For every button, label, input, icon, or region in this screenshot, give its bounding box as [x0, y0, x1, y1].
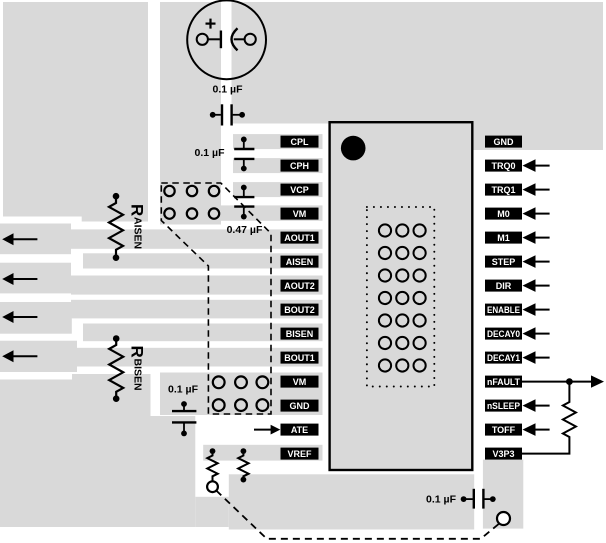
svg-text:DECAY1: DECAY1 [487, 353, 520, 363]
wire: nFAULT to pullup and output arrow [522, 381, 592, 383]
wire: BOUT2 trace [71, 300, 323, 319]
node: nFAULT junction [566, 378, 573, 385]
arrow: input to DECAY1 [523, 351, 550, 364]
arrow: motor output 3 (left) [2, 311, 37, 323]
copper pour: left plane lower step [82, 217, 148, 222]
svg-text:R: R [128, 346, 147, 358]
capacitor C3 0.1 uF (CPL-CPH flying cap) [195, 137, 255, 172]
svg-text:CPH: CPH [290, 161, 309, 171]
svg-text:DIR: DIR [496, 281, 512, 291]
node: pin label GND (left column row 12) [281, 400, 319, 412]
svg-text:V3P3: V3P3 [492, 449, 514, 459]
node: pin label DECAY1 (right column row 10) [485, 352, 522, 364]
svg-text:VM: VM [293, 377, 307, 387]
arrow: motor output 1 (left) [2, 233, 37, 245]
svg-text:AOUT1: AOUT1 [284, 233, 315, 243]
svg-text:AISEN: AISEN [131, 217, 143, 249]
svg-text:DECAY0: DECAY0 [487, 329, 520, 339]
svg-text:VCP: VCP [290, 185, 309, 195]
arrow: input to TOFF [523, 423, 550, 436]
node: via to bottom layer (VREF) [207, 481, 218, 492]
arrow: input to DECAY0 [523, 327, 550, 340]
node: pin label BISEN (left column row 9) [281, 328, 319, 340]
node: thermal pad via array (3x7) [379, 224, 426, 371]
svg-text:0.1 µF: 0.1 µF [426, 494, 457, 506]
node: pin label AISEN (left column row 6) [281, 256, 319, 268]
wire: VM pin trace [160, 205, 323, 220]
svg-text:0.1 µF: 0.1 µF [195, 147, 226, 159]
svg-text:CPL: CPL [291, 137, 310, 147]
node: pin label nSLEEP (right column row 12) [485, 400, 522, 412]
node: pin 1 marker dot [341, 136, 366, 161]
node: pin label TRQ1 (right column row 3) [485, 184, 522, 196]
wire: AISEN trace [83, 253, 323, 268]
arrow: input to M1 [523, 231, 550, 244]
resistor RBISEN [109, 335, 147, 402]
IC U1 stepper motor driver body [330, 122, 473, 470]
svg-text:M1: M1 [497, 233, 510, 243]
node: pin label BOUT1 (left column row 10) [281, 352, 319, 364]
svg-text:VM: VM [293, 209, 307, 219]
node: pin label M1 (right column row 5) [485, 232, 522, 244]
wire: AOUT1 trace left segment [0, 224, 71, 255]
copper pour: left plane [3, 2, 148, 217]
svg-text:VREF: VREF [287, 449, 312, 459]
node: pin label nFAULT (right column row 11) [485, 376, 522, 388]
svg-text:ATE: ATE [291, 425, 308, 435]
copper pour: top plane right extension (under GND box) [329, 124, 603, 151]
node: pin label ATE (left column row 13) [281, 424, 319, 436]
wire: VM/GND island with via array [160, 373, 323, 416]
svg-text:GND: GND [494, 137, 515, 147]
node: pin label VCP (left column row 3) [281, 184, 319, 196]
copper pour: below via pocket [195, 497, 229, 527]
node: pin label ENABLE (right column row 8) [485, 304, 522, 316]
node: pin label TOFF (right column row 13) [485, 424, 522, 436]
svg-text:BOUT1: BOUT1 [284, 353, 315, 363]
node: VM via array (3x2 top) [164, 186, 219, 219]
node: via to bottom layer (V3P3 area) [497, 512, 510, 525]
svg-text:TOFF: TOFF [492, 425, 516, 435]
svg-text:nFAULT: nFAULT [487, 377, 520, 387]
svg-text:BISEN: BISEN [131, 359, 143, 391]
node: pin label AOUT2 (left column row 7) [281, 280, 319, 292]
arrow: input to nSLEEP [523, 399, 550, 412]
svg-text:BOUT2: BOUT2 [284, 305, 315, 315]
wire: AOUT2 trace [71, 276, 323, 295]
copper pour: bottom plane under IC [229, 474, 474, 529]
svg-text:GND: GND [290, 401, 311, 411]
node: pin label M0 (right column row 4) [485, 208, 522, 220]
wire: BOUT2 trace left segment [0, 302, 72, 334]
svg-text:AISEN: AISEN [286, 257, 314, 267]
arrow: motor output 2 (left) [2, 273, 37, 285]
svg-text:0.1 µF: 0.1 µF [168, 384, 199, 396]
node: pin label AOUT1 (left column row 5) [281, 232, 319, 244]
capacitor C2 0.1 uF (VM bypass, top) [210, 83, 245, 125]
svg-text:AOUT2: AOUT2 [284, 281, 315, 291]
arrow: input to TRQ1 [523, 183, 550, 196]
arrow: input to TRQ0 [523, 159, 550, 172]
node: pin label CPL (left column row 1) [281, 136, 319, 148]
svg-text:nSLEEP: nSLEEP [487, 401, 520, 411]
node: bottom-layer via region outline (dashed) [161, 183, 271, 414]
arrow: input to STEP [523, 255, 550, 268]
node: pin label VM (left column row 4) [281, 208, 319, 220]
wire: BOUT1 trace [71, 348, 323, 367]
svg-text:TRQ0: TRQ0 [491, 161, 515, 171]
arrow: input to DIR [523, 279, 550, 292]
copper pour: bottom-left plane [0, 380, 151, 417]
node: pin label VREF (left column row 14) [281, 448, 319, 460]
wire: AOUT2 trace left segment [0, 263, 71, 294]
capacitor C1 bulk electrolytic (top) [187, 0, 266, 79]
wire: V3P3 column [483, 460, 523, 529]
capacitor C6 0.1 uF (V3P3 bypass) [426, 489, 496, 509]
node: pin label GND (right column row 1) [485, 136, 522, 148]
resistor RAISEN [109, 193, 147, 261]
wire: BISEN trace [83, 324, 323, 342]
node: pin label TRQ0 (right column row 2) [485, 160, 522, 172]
resistor R2 (VREF divider, to GND) [238, 448, 248, 482]
wire: CPH trace [233, 158, 323, 173]
node: thermal pad dotted outline [367, 207, 434, 387]
node: pin label DECAY0 (right column row 9) [485, 328, 522, 340]
wire: BOUT1 trace left segment [0, 341, 77, 372]
wire: bottom-layer VREF route (dashed) [216, 491, 499, 539]
node: pin label BOUT2 (left column row 8) [281, 304, 319, 316]
arrow: nFAULT output [591, 375, 604, 387]
svg-text:TRQ1: TRQ1 [491, 185, 515, 195]
arrow: motor output 4 (left) [2, 350, 37, 362]
arrow: input to ATE [254, 425, 280, 435]
wire: VM input trace column (bulk cap to via region) [160, 2, 221, 225]
svg-text:M0: M0 [497, 209, 510, 219]
wire: VCP trace [233, 182, 323, 197]
node: pin label VM (left column row 11) [281, 376, 319, 388]
wire: AOUT1 trace [71, 229, 323, 248]
resistor R1 (VREF divider, to via) [207, 448, 217, 481]
svg-text:0.1 µF: 0.1 µF [213, 83, 244, 95]
node: pin label STEP (right column row 6) [485, 256, 522, 268]
svg-text:BISEN: BISEN [286, 329, 314, 339]
wire: CPL trace [233, 134, 323, 149]
copper pour: bottom-left plane upper step [72, 374, 151, 381]
svg-text:ENABLE: ENABLE [487, 305, 520, 315]
capacitor C4 0.47 uF (VCP-VM) [227, 185, 263, 237]
node: pin label CPH (left column row 2) [281, 160, 319, 172]
svg-text:R: R [128, 204, 147, 216]
node: VM/GND via array (3x2 bottom) [213, 376, 268, 411]
svg-text:0.47 µF: 0.47 µF [227, 224, 263, 236]
copper pour: bottom-left plane lower part [0, 416, 195, 527]
arrow: input to M0 [523, 207, 550, 220]
node: pin label V3P3 (right column row 14) [485, 448, 522, 460]
resistor R3 nFAULT pullup [522, 382, 576, 454]
copper pour: top plane [232, 2, 604, 124]
arrow: input to ENABLE [523, 303, 550, 316]
capacitor C5 0.1 uF (VM-GND, bottom-left) [168, 384, 199, 437]
svg-text:STEP: STEP [492, 257, 516, 267]
node: pin label DIR (right column row 7) [485, 280, 522, 292]
wire: VREF trace [203, 445, 322, 461]
